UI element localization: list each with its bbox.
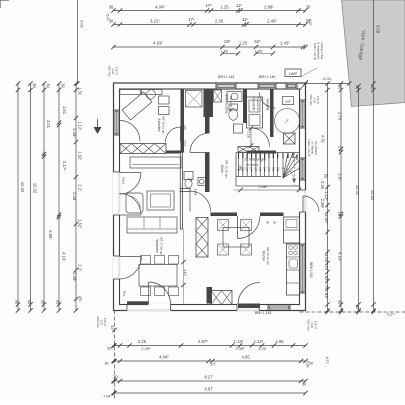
svg-text:1.25: 1.25 [258, 346, 266, 351]
svg-text:45⁵: 45⁵ [78, 296, 83, 303]
svg-text:10.02: 10.02 [33, 183, 38, 194]
svg-text:10.02: 10.02 [355, 185, 360, 196]
svg-text:LWP: LWP [289, 71, 298, 76]
svg-text:-0.22: -0.22 [312, 97, 316, 103]
svg-text:3.01: 3.01 [46, 120, 51, 129]
svg-text:Arbeiten: Arbeiten [157, 118, 161, 131]
svg-text:30: 30 [60, 83, 65, 88]
svg-text:62⁵: 62⁵ [254, 39, 261, 44]
svg-text:-2.00-: -2.00- [322, 77, 333, 81]
svg-text:Küche: Küche [262, 251, 266, 261]
svg-text:1.43⁵: 1.43⁵ [280, 41, 290, 46]
svg-text:BRH 1.145: BRH 1.145 [218, 75, 235, 79]
svg-text:30: 30 [41, 300, 46, 305]
svg-text:-0.22: -0.22 [111, 68, 115, 74]
svg-text:Gard.: Gard. [122, 177, 126, 185]
svg-text:93⁵: 93⁵ [324, 293, 329, 300]
svg-text:2.01: 2.01 [182, 140, 186, 146]
svg-text:2.39⁵: 2.39⁵ [72, 128, 77, 138]
svg-text:WF 3.50 qm: WF 3.50 qm [229, 96, 233, 113]
svg-text:2.30: 2.30 [320, 181, 325, 190]
svg-text:6.80⁵: 6.80⁵ [48, 230, 53, 240]
svg-text:30: 30 [306, 5, 311, 10]
svg-text:2.40⁵: 2.40⁵ [267, 19, 277, 24]
svg-text:Wohnen: Wohnen [155, 239, 159, 252]
svg-text:1.12⁵: 1.12⁵ [254, 339, 264, 344]
svg-text:Abstellr.: Abstellr. [266, 99, 270, 112]
svg-text:Lüftung n. Bed.: Lüftung n. Bed. [320, 42, 324, 60]
svg-text:90: 90 [266, 221, 270, 225]
svg-text:4.10⁵: 4.10⁵ [338, 252, 343, 262]
svg-text:2.39⁵: 2.39⁵ [320, 199, 325, 209]
svg-text:2.16: 2.16 [194, 189, 198, 195]
svg-text:OG: Wohnfl.: OG: Wohnfl. [314, 141, 318, 156]
svg-text:2.2⁵: 2.2⁵ [78, 184, 83, 192]
svg-text:1.12⁵: 1.12⁵ [234, 339, 244, 344]
svg-text:4.31: 4.31 [321, 135, 326, 144]
svg-text:30: 30 [113, 375, 118, 380]
svg-text:4.17⁵: 4.17⁵ [62, 161, 67, 171]
svg-text:4.05: 4.05 [241, 355, 250, 360]
svg-text:OKG Neu: OKG Neu [108, 65, 112, 77]
svg-text:1.06: 1.06 [275, 339, 284, 344]
svg-text:90: 90 [189, 178, 193, 182]
svg-text:-0.22: -0.22 [99, 319, 103, 325]
svg-text:90⁵: 90⁵ [182, 126, 186, 132]
svg-text:WF 4.98 qm: WF 4.98 qm [270, 97, 274, 114]
svg-text:2.8⁵: 2.8⁵ [338, 173, 343, 181]
svg-text:4.04⁵: 4.04⁵ [159, 355, 169, 360]
svg-text:1.62⁵: 1.62⁵ [78, 151, 83, 161]
svg-text:4.93⁵: 4.93⁵ [153, 41, 163, 46]
svg-text:1.62⁵: 1.62⁵ [324, 214, 329, 224]
svg-text:75: 75 [324, 285, 329, 290]
svg-text:30: 30 [306, 19, 311, 24]
svg-text:75: 75 [324, 265, 329, 270]
svg-text:1.62⁵: 1.62⁵ [78, 219, 83, 229]
svg-text:2.68⁵: 2.68⁵ [259, 185, 268, 189]
svg-text:30: 30 [56, 300, 61, 305]
svg-text:5-Speicher: 5-Speicher [256, 97, 260, 112]
svg-text:11⁵: 11⁵ [242, 17, 248, 22]
svg-text:BRH 1.145: BRH 1.145 [259, 75, 276, 79]
svg-text:10.62: 10.62 [20, 182, 25, 193]
svg-text:-4.77-: -4.77- [325, 356, 329, 365]
svg-text:2.68⁵: 2.68⁵ [264, 5, 274, 10]
svg-text:2.39⁵: 2.39⁵ [235, 346, 245, 351]
svg-text:8.27: 8.27 [204, 375, 213, 380]
svg-text:5.09: 5.09 [376, 25, 381, 34]
svg-text:-7.04-: -7.04- [103, 395, 112, 399]
svg-text:2.39⁵: 2.39⁵ [141, 346, 151, 351]
svg-text:679.73: 679.73 [316, 96, 320, 104]
svg-text:30: 30 [45, 83, 50, 88]
svg-text:1.25: 1.25 [220, 5, 229, 10]
svg-text:10.62: 10.62 [370, 190, 375, 201]
svg-text:-0.22: -0.22 [310, 322, 314, 328]
svg-text:2.18: 2.18 [246, 131, 250, 137]
svg-text:BRH 1.145: BRH 1.145 [255, 311, 272, 315]
svg-text:WF 27.55 qm: WF 27.55 qm [159, 237, 163, 256]
svg-text:5.00: 5.00 [80, 20, 85, 29]
svg-text:St: Aufenthaltsr.: St: Aufenthaltsr. [317, 42, 321, 60]
svg-text:2.67⁵: 2.67⁵ [198, 339, 208, 344]
svg-text:1.25: 1.25 [255, 50, 262, 54]
svg-text:1.50: 1.50 [324, 254, 329, 263]
svg-text:Punkt W.: Punkt W. [252, 97, 256, 111]
svg-text:WF 10.16 qm: WF 10.16 qm [224, 160, 228, 179]
svg-text:Fußb. i. OG 45: Fußb. i. OG 45 [313, 43, 317, 61]
svg-text:679.73: 679.73 [313, 321, 317, 329]
svg-text:Diele: Diele [220, 165, 224, 173]
svg-text:1.25: 1.25 [239, 41, 248, 46]
svg-text:8.67: 8.67 [204, 387, 213, 392]
svg-text:WF 10.16 qm: WF 10.16 qm [161, 116, 165, 135]
svg-text:15 Steigungen: 15 Steigungen [244, 157, 266, 161]
svg-text:30: 30 [15, 300, 20, 305]
svg-text:30: 30 [109, 19, 114, 24]
svg-text:LWP: LWP [285, 100, 291, 104]
svg-text:679.73: 679.73 [103, 318, 107, 326]
svg-text:WF 14.16 qm: WF 14.16 qm [266, 247, 270, 266]
svg-text:679.73: 679.73 [114, 67, 118, 75]
svg-text:2.39⁵: 2.39⁵ [72, 272, 77, 282]
svg-text:11⁵: 11⁵ [236, 3, 242, 8]
svg-text:WC-Dusche: WC-Dusche [225, 94, 229, 113]
svg-text:4.04⁵: 4.04⁵ [155, 5, 165, 10]
svg-text:17⁵: 17⁵ [188, 17, 195, 22]
svg-text:OKG Neu: OKG Neu [309, 94, 313, 106]
svg-text:OKG Neu: OKG Neu [96, 316, 100, 328]
svg-text:OKG Neu: OKG Neu [307, 319, 311, 331]
svg-text:Terr.: Terr. [122, 290, 126, 296]
svg-text:2.36: 2.36 [215, 19, 224, 24]
svg-text:2.75: 2.75 [338, 112, 343, 121]
svg-text:30: 30 [273, 221, 277, 225]
svg-text:30: 30 [109, 5, 114, 10]
svg-text:BRH 1.545: BRH 1.545 [309, 262, 313, 278]
svg-text:1.51: 1.51 [62, 106, 67, 115]
svg-text:17.5/26.5: 17.5/26.5 [246, 163, 259, 167]
svg-text:2.39: 2.39 [72, 192, 77, 201]
svg-text:50: 50 [324, 174, 329, 179]
svg-text:30: 30 [32, 83, 37, 88]
svg-text:St: Abstellr.: St: Abstellr. [311, 142, 315, 155]
svg-text:17⁵: 17⁵ [205, 3, 212, 8]
svg-text:62⁵: 62⁵ [224, 39, 231, 44]
svg-text:2.25: 2.25 [138, 339, 147, 344]
svg-text:1.12⁵: 1.12⁵ [78, 121, 83, 131]
svg-text:4.10⁵: 4.10⁵ [61, 252, 66, 262]
svg-text:30: 30 [27, 300, 32, 305]
svg-text:-6.27-: -6.27- [386, 313, 396, 317]
svg-text:3.21⁵: 3.21⁵ [150, 19, 160, 24]
svg-text:Fußb. i. UG 45: Fußb. i. UG 45 [307, 139, 311, 157]
